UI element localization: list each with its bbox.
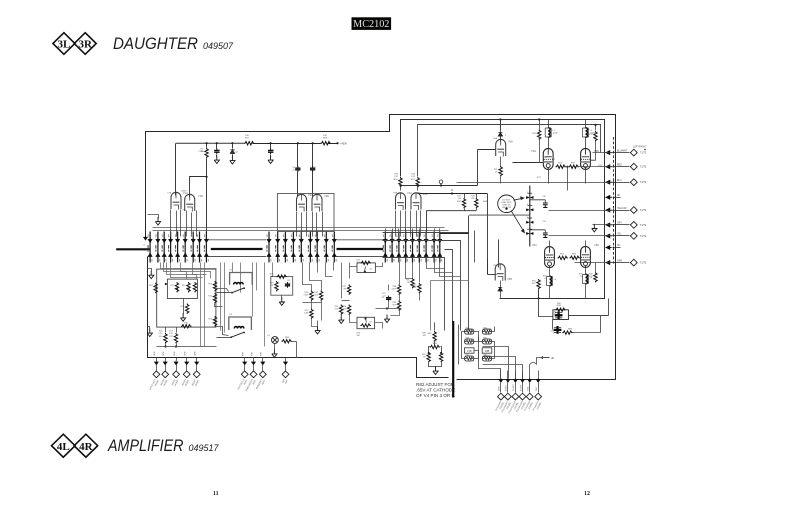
node YELLOW [613,209,615,211]
wire [492,327,495,332]
label J4/GRN [160,379,165,387]
connector arrow GND [528,378,532,382]
label V1A [465,326,469,329]
connector pin arrow down 14 [299,239,303,243]
pin tick [417,234,422,261]
pin label [383,245,384,252]
wire [165,358,167,361]
pin label [148,245,149,252]
svg-text:390K: 390K [412,287,417,289]
svg-text:049517: 049517 [189,443,220,453]
svg-text:GRY: GRY [617,223,622,225]
resistor R59 [154,283,157,293]
label Z2 [235,152,238,154]
label R32 [305,310,310,312]
svg-text:V6A: V6A [531,149,536,153]
connector pin wire 23 [412,232,414,263]
wire [608,299,610,316]
label V6C [532,243,537,247]
svg-text:3: 3 [554,159,555,161]
wire [165,365,167,371]
resistor R24 [213,293,216,303]
wire drop [252,263,254,317]
wire to switch S1 [215,289,229,292]
svg-text:OF V4 PIN 3 OR 8.: OF V4 PIN 3 OR 8. [416,393,455,398]
connector pin arrow down 1 [148,239,152,243]
svg-text:T1/T2: T1/T2 [640,181,647,184]
node RED [613,166,615,168]
node YEL [613,235,615,237]
pin label GND [528,386,530,391]
value 1K [441,356,444,358]
pin label [403,245,404,252]
pin tick [410,234,415,261]
connector pin arrow down 18 [332,239,336,243]
connector pin arrow up 9 [204,253,208,257]
diode D6 [498,287,502,292]
wire [186,358,188,361]
connector diamond CONTROL A [241,371,248,378]
tube lead [500,157,502,167]
heater jumper V4A [482,339,491,344]
wire [441,347,442,353]
value 10 [580,276,583,278]
connector diamond GRN [630,259,637,266]
relay coil K1 [234,283,244,285]
connector tag 4R [74,434,98,457]
connector pin arrow up 8 [197,253,201,257]
wire jog 3 [167,263,207,275]
wire jog [427,263,445,269]
label V1B [198,194,203,198]
test point TP1 [439,180,443,186]
wire to RED [575,166,613,168]
wire [419,294,421,301]
resistor R63 [537,279,540,289]
value 220K [304,294,309,296]
wire [435,367,437,368]
junction [386,307,388,309]
wire [529,383,531,393]
ground [272,349,277,357]
lamp DS1 [272,337,279,344]
pin label WHT [536,386,538,391]
tube V1A [171,192,181,209]
wire [595,142,597,161]
wire [176,358,178,361]
wire [281,296,283,299]
wire [215,304,223,307]
svg-text:V3B: V3B [423,192,428,196]
pin label [204,245,205,252]
harness id [155,380,160,387]
harness id2 [507,401,513,410]
svg-text:YEL: YEL [617,234,622,236]
connector pin arrow down 19 [383,239,387,243]
wire [549,268,551,277]
svg-text:T1/T2: T1/T2 [640,262,647,265]
harness arrow GRY [606,223,613,227]
board number 049507 [203,41,234,51]
connector pin wire 24 [418,232,420,263]
wire plate V1A [175,144,177,196]
svg-text:YL/WHT: YL/WHT [513,383,515,391]
junction [164,345,166,347]
wire [375,323,383,329]
wire [312,172,314,197]
label V2A [308,193,313,197]
label R41 [411,179,416,181]
harness id [253,379,258,385]
wire color label RED [617,164,622,166]
connector diamond GRY [630,222,637,229]
divider line thick [452,321,454,398]
value .01 [383,295,387,297]
connector pin arrow up 13 [291,253,295,257]
label R77 [588,134,593,136]
relay box K2 [229,317,252,330]
connector pin arrow down 20 [390,239,394,243]
svg-text:V3B: V3B [417,193,421,195]
harness id [262,379,267,385]
svg-text:GRN: GRN [174,351,176,356]
svg-text:V5A: V5A [508,140,513,144]
label R11 [170,285,174,287]
connector diamond BUSS/WHT [259,371,266,378]
screen resistor R61 [558,254,568,260]
junction [312,142,314,144]
wire nest 2 [383,241,461,331]
pin tick [267,234,272,261]
wire to GRN [575,262,613,264]
value 1.2K [411,176,416,178]
svg-text:LEFT/RIGHT: LEFT/RIGHT [633,146,647,148]
connector pin wire 22 [405,232,407,263]
wire color label GRY [617,223,622,225]
value 1N4 [232,152,237,154]
label G1 [369,269,373,271]
wire [500,137,502,142]
resistor R99 [282,337,292,343]
B+ arrow [541,356,554,360]
harness id2 [528,401,534,410]
wire GRN [614,262,630,264]
svg-text:T1/T2: T1/T2 [640,152,647,155]
heater jumper V3A [465,339,474,344]
wire [429,363,442,367]
wire lead [405,229,407,233]
pin tick [432,234,437,261]
wire drop [204,263,206,347]
connector diamond GRN [498,393,505,400]
stub NC [614,197,621,199]
harness label WHT [533,400,540,411]
resistor R48 [475,198,478,208]
wire nest 3 [445,250,453,323]
wire [244,358,246,361]
tube lead [322,212,324,237]
wire [464,209,466,211]
tube lead [186,211,188,237]
wire [569,315,609,317]
label 2 [527,204,529,206]
label V5B [507,277,512,281]
svg-text:DAUGHTER: DAUGHTER [113,35,198,53]
wire jog 4 [171,263,203,278]
label R40 [393,179,398,181]
harness arrow NC [606,195,613,199]
value .1 [219,152,222,154]
wire grid V5A [478,149,496,151]
value 390K [412,287,417,289]
label V1A [167,192,171,195]
resistor R22 [275,281,278,291]
connector pin arrow up 27 [438,253,442,257]
svg-text:PUR: PUR [243,351,245,356]
wire [148,269,152,272]
junction [399,184,401,186]
label R3 [201,151,205,153]
junction [175,345,177,347]
label R55 [494,169,499,171]
wire jog [431,280,469,282]
resistor R16 [164,333,167,343]
svg-text:V6D: V6D [594,243,599,247]
wire [391,311,400,316]
label C2 [218,150,221,152]
trim cap C30 [530,200,548,208]
label C31 [542,221,547,223]
wire [507,383,509,393]
value .1 [289,282,292,284]
wire [216,155,218,157]
wire heater link [474,351,479,359]
label R78 [543,276,548,278]
label R83 [422,354,427,356]
connector diamond BLU/WHT [630,149,637,156]
connector pin arrow up 22 [404,253,408,257]
wire [157,346,217,348]
label V2B [318,194,322,196]
connector pin arrow down 7 [191,239,195,243]
resistor R31 [319,291,322,301]
connector pin arrow down 2 [156,239,160,243]
svg-text:3L: 3L [57,39,70,51]
tube V3A [396,193,406,210]
wire [165,344,167,347]
junction [428,352,430,354]
power tube V6C [545,247,555,268]
power tube V6B [581,148,591,169]
label 14 [451,189,454,192]
wire [500,281,502,287]
pin label [424,245,425,252]
tube V2B [312,194,322,211]
ground [147,329,152,337]
stage box input [157,269,216,327]
wire [326,263,333,277]
wire color label YELLOW [617,208,627,210]
harness arrow GRN [606,261,613,265]
wire [244,365,246,371]
svg-text:V1B: V1B [182,210,186,212]
connector pin wire 13 [292,232,294,263]
pin tick [183,234,188,261]
label R21 [245,138,250,140]
tube lead [400,211,402,237]
wire to switch S2 [215,327,229,336]
wire [538,371,540,379]
label V1A [183,191,188,195]
wire nest 1 [383,233,469,331]
label R85 [557,305,562,307]
pin label [168,245,169,252]
connector pin wire 15 [309,232,311,263]
value 1M [407,282,410,284]
label R80 [589,274,594,276]
resistor R44 [418,283,421,293]
label C4 [272,150,275,152]
svg-text:100K: 100K [313,294,318,296]
junction [538,118,540,120]
svg-text:1.2K: 1.2K [411,176,416,178]
svg-text:12AX7: 12AX7 [181,190,188,193]
pin tick [403,234,408,261]
svg-text:T1/T2: T1/T2 [640,235,647,238]
label G2 [369,322,373,324]
junction [566,166,568,168]
node bus end [336,142,338,144]
wire bus end [329,143,338,145]
pointer arrow 1 [514,197,524,200]
node NC [613,196,615,198]
value 47K [343,308,347,310]
wire [399,295,401,301]
connector pin wire 26 [433,232,435,263]
connector pin arrow up 26 [432,253,436,257]
resistor R85 [555,308,565,311]
svg-text:049507: 049507 [203,41,234,51]
bus rail upper [208,239,383,241]
value .1 [273,152,276,154]
wire [515,383,517,393]
pin tick [383,234,388,261]
page number 11 [213,491,219,497]
heater jumper V2A [482,329,491,334]
resistor R81 [433,331,436,341]
wire [595,125,597,131]
label L4 [590,277,593,279]
value .47 [313,169,317,171]
connector pin arrow up 24 [417,253,421,257]
harness label YL/WHT [509,400,518,414]
capacitor C9 [310,166,315,172]
label R16 [159,331,164,333]
svg-text:V2B: V2B [324,194,329,198]
resistor R32 [310,309,313,319]
wire [567,167,569,191]
wire [156,358,158,361]
wire [262,358,264,361]
label R34 [342,306,347,308]
svg-text:A/WHT: A/WHT [505,384,508,391]
pin tick [156,234,161,261]
wire [548,137,550,149]
harness label A/WHT [501,400,510,413]
label PURPLE/WHT [246,378,255,392]
wire [479,337,501,379]
pin label [417,245,418,252]
value 100M [590,132,595,134]
label V1B [465,354,469,356]
capacitor C12 [285,282,290,288]
wire YEL [614,235,630,237]
wire heater left [462,332,465,359]
label R24 [208,296,213,298]
ground [230,156,235,164]
value 10 [544,278,547,280]
wire [585,268,587,275]
resistor R34 [347,305,350,315]
wire cluster edge [458,325,460,365]
label R68 [323,138,328,140]
value 10K [245,135,249,137]
wire [585,120,587,129]
wire [176,328,178,333]
pin tick [291,234,296,261]
pin label [155,245,156,252]
label R30 [305,292,310,294]
wire [434,323,436,331]
label R48 [483,201,488,203]
pin label [432,245,433,252]
wire to YELLOW [549,210,613,212]
wire to YEL [549,235,613,237]
pin label [410,245,411,252]
resistor R17 [174,333,177,343]
svg-text:V3A: V3A [407,191,412,195]
connector pin arrow up 25 [424,253,428,257]
wire cathode V6A [548,170,550,184]
harness label GRN [496,401,503,412]
resistor R40 [399,177,402,187]
wire [507,371,509,379]
tube V3B [411,193,421,210]
svg-text:1M: 1M [407,282,410,284]
label R38 [392,286,397,288]
label J4/ORN [182,379,187,387]
wire BLU [614,182,630,184]
connector pin wire 25 [425,232,427,263]
resistor R68 [321,142,331,145]
svg-text:BLU: BLU [617,180,622,182]
connector pin wire 4 [170,232,172,263]
pin label [197,245,198,252]
wire [310,263,322,291]
wire [500,177,502,184]
label L2 [590,130,593,132]
wire [388,301,390,309]
harness id [285,379,289,384]
wire drop [220,263,222,331]
pin label [437,245,438,252]
value 50K [356,335,360,337]
svg-text:T1/T2: T1/T2 [640,166,647,169]
label R17 [169,331,174,333]
svg-text:V5B: V5B [507,277,512,281]
connector pin arrow up 4 [168,253,172,257]
wire [552,320,554,330]
